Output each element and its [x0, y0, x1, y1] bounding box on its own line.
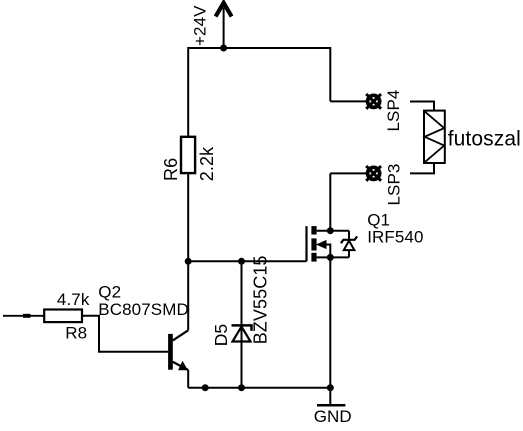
- source link: [317, 256, 349, 258]
- part futoszal: [410, 102, 521, 174]
- pad LSP4: [366, 90, 403, 132]
- svg-text:Q2: Q2: [98, 283, 121, 302]
- svg-text:IRF540: IRF540: [367, 228, 423, 247]
- svg-text:GND: GND: [314, 407, 352, 426]
- resistor R6: [161, 137, 217, 181]
- channel bars: [311, 226, 316, 234]
- junction source: [327, 254, 334, 261]
- svg-text:D5: D5: [211, 324, 231, 347]
- wire LSP3 to drain: [329, 173, 331, 230]
- pad LSP3: [330, 164, 403, 206]
- svg-text:+24V: +24V: [191, 5, 210, 46]
- zener D5: [211, 255, 271, 387]
- junction bottom-zener: [238, 384, 245, 391]
- pin input: [3, 315, 44, 317]
- svg-text:R8: R8: [65, 324, 87, 343]
- substrate arrow: [316, 240, 327, 249]
- drain link: [317, 230, 349, 232]
- wire top rail: [188, 48, 330, 137]
- svg-text:R6: R6: [161, 158, 181, 181]
- svg-text:4.7k: 4.7k: [57, 290, 90, 309]
- wire bottom rail: [188, 387, 330, 389]
- svg-text:BZV55C15: BZV55C15: [251, 255, 271, 344]
- wire to LSP4 pad: [330, 100, 366, 102]
- junction supply: [220, 45, 227, 52]
- resistor R8: [44, 290, 90, 342]
- junction drain: [327, 227, 334, 234]
- wire gate rail: [188, 260, 306, 262]
- svg-text:2.2k: 2.2k: [197, 146, 217, 181]
- junction bottom-source: [327, 384, 334, 391]
- gate line: [305, 226, 307, 261]
- junction gate-zener: [238, 258, 245, 265]
- ground: [314, 388, 352, 426]
- svg-text:LSP4: LSP4: [384, 90, 403, 132]
- transistor Q2: [98, 261, 189, 387]
- body diode: [348, 231, 350, 240]
- svg-text:BC807SMD: BC807SMD: [98, 300, 189, 319]
- junction bottom-left: [202, 384, 209, 391]
- wire R6 bottom to gate node: [187, 173, 189, 261]
- svg-text:futoszal: futoszal: [448, 128, 521, 151]
- wire source to ground rail: [329, 257, 331, 387]
- supply +24V: [191, 3, 232, 48]
- junction gate-left: [185, 258, 192, 265]
- wire R8 to base: [82, 316, 168, 352]
- transistor Q1 MOSFET: [307, 211, 424, 262]
- svg-text:LSP3: LSP3: [385, 164, 404, 206]
